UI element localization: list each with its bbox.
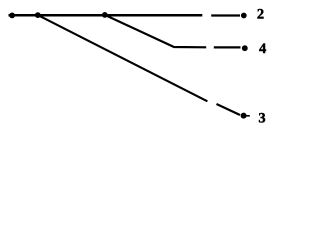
node: left start dot <box>9 13 15 19</box>
wire: dashed continuation of 3 <box>217 104 241 115</box>
svg-text:4: 4 <box>259 41 266 57</box>
wire: top dashed continuation <box>211 14 240 16</box>
wire: diagonal branch to 4 then horizontal <box>105 15 206 47</box>
svg-text:3: 3 <box>258 111 265 127</box>
node: endpoint dot of lineage 2 <box>241 13 247 19</box>
node: second dot (branch point to 3) <box>35 12 41 18</box>
node: third dot (branch point to 4) <box>102 12 108 18</box>
wire: small stub right of dot 3 <box>247 115 250 117</box>
node: endpoint dot of lineage 4 <box>242 45 248 51</box>
svg-text:2: 2 <box>257 7 264 23</box>
node: endpoint dot of lineage 3 <box>241 113 247 119</box>
wire: dashed continuation of 4 <box>214 46 241 48</box>
wire: long diagonal branch to 3 <box>38 15 208 101</box>
wire: top horizontal line <box>9 14 203 17</box>
